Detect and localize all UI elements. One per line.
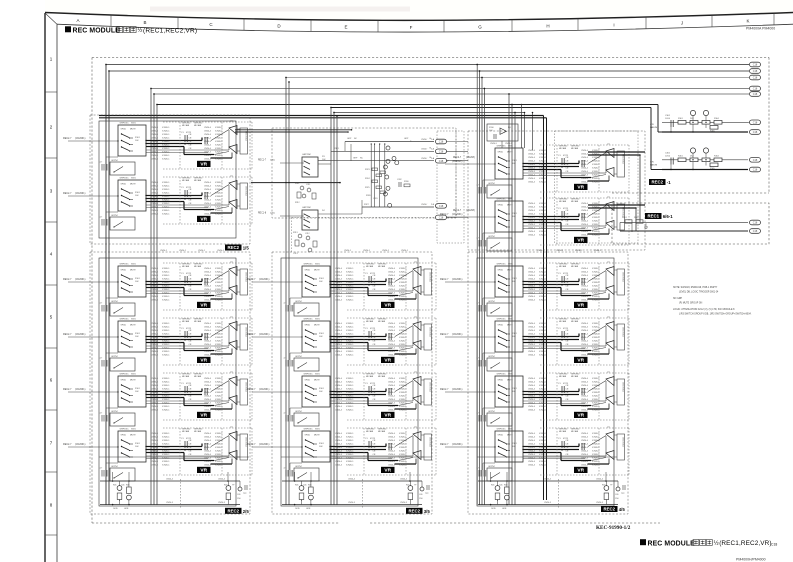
svg-text:C18: C18 bbox=[753, 230, 758, 233]
label REC2 4/5 bbox=[601, 506, 625, 512]
svg-text:REC2: REC2 bbox=[604, 507, 616, 512]
REC channel block left g2 ch3 bbox=[63, 372, 252, 427]
svg-text:(CN20#): (CN20#) bbox=[466, 210, 475, 212]
svg-text:½: ½ bbox=[714, 540, 719, 547]
wire REC1 out 1 bbox=[620, 222, 748, 224]
REC channel block right g2 ch1 bbox=[440, 262, 629, 317]
bottom bus left bbox=[99, 456, 249, 458]
resistor R401 bbox=[625, 220, 632, 223]
dashed box REC1 6/6 bbox=[612, 203, 769, 244]
svg-text:4/5: 4/5 bbox=[619, 507, 626, 512]
bus wire V1 bbox=[105, 65, 107, 506]
svg-text:NOTE: SW1018, RSW1019, PCB-1 P: NOTE: SW1018, RSW1019, PCB-1 PARTY bbox=[673, 286, 718, 289]
REC channel block mid g2 ch1 bbox=[247, 262, 436, 317]
REC2 group1 left solid box bbox=[99, 121, 236, 238]
svg-text:CN20-1: CN20-1 bbox=[382, 250, 390, 252]
terminal B1 bbox=[750, 158, 761, 163]
svg-text:R313: R313 bbox=[293, 232, 298, 234]
REC channel block right g1 ch2 bbox=[440, 197, 629, 252]
svg-text:(REC1,REC2,VR): (REC1,REC2,VR) bbox=[719, 540, 771, 547]
label REC1 6/6-1 bbox=[645, 213, 673, 219]
REC channel block left g2 ch1 bbox=[63, 262, 252, 317]
svg-text:CN20-1: CN20-1 bbox=[344, 250, 352, 252]
svg-text:(REC1,REC2,VR): (REC1,REC2,VR) bbox=[143, 27, 197, 34]
cluster under S32 bbox=[298, 234, 302, 238]
bus wire H4 bbox=[151, 88, 749, 90]
connector dashed box bbox=[455, 130, 457, 217]
terminal A1 bbox=[750, 120, 761, 125]
terminal T1 bbox=[750, 62, 761, 67]
bus wire V10 bbox=[336, 116, 338, 505]
module boundary dashed top bbox=[92, 57, 769, 59]
svg-text:KEC-91990-1/2: KEC-91990-1/2 bbox=[596, 525, 631, 531]
label REC2 2/5 bbox=[225, 508, 249, 514]
bus wire V13 bbox=[481, 78, 483, 506]
border frame band left bbox=[56, 24, 58, 562]
svg-text:GRP: GRP bbox=[404, 138, 409, 140]
svg-text:C332: C332 bbox=[397, 179, 402, 181]
svg-text:C18: C18 bbox=[753, 70, 758, 73]
label REC2 1/5 bbox=[225, 245, 249, 251]
svg-text:GRP: GRP bbox=[353, 157, 358, 159]
svg-text:REC2-7: REC2-7 bbox=[453, 157, 462, 159]
REC channel block mid g2 ch4 bbox=[247, 427, 436, 482]
svg-text:CN20-1: CN20-1 bbox=[575, 250, 583, 252]
svg-text:REC1-7: REC1-7 bbox=[258, 160, 267, 162]
svg-text:CN20-1: CN20-1 bbox=[594, 250, 602, 252]
bus wire V16 bbox=[511, 105, 513, 506]
bus wire V17 bbox=[514, 113, 516, 506]
bus wire H2 bbox=[109, 70, 749, 72]
svg-text:REC2: REC2 bbox=[652, 180, 664, 185]
bus wire V8 bbox=[330, 108, 332, 506]
svg-text:C311: C311 bbox=[306, 184, 310, 186]
bus wire V14 bbox=[483, 89, 485, 506]
ground mark bbox=[645, 223, 647, 227]
wire drop J1 bbox=[521, 105, 523, 149]
REC channel block left g1 ch1 bbox=[63, 121, 252, 176]
bus wire V2 bbox=[108, 71, 110, 505]
svg-text:C18: C18 bbox=[753, 169, 758, 172]
mid-top switch S32 bbox=[302, 210, 318, 230]
module boundary dashed left bbox=[91, 58, 93, 524]
bus wire V11 bbox=[476, 65, 478, 506]
svg-text:I: I bbox=[613, 22, 614, 27]
svg-text:C18: C18 bbox=[753, 222, 758, 225]
svg-text:R312: R312 bbox=[295, 202, 300, 204]
ladder resistors bbox=[372, 168, 378, 171]
svg-text:R311: R311 bbox=[295, 183, 299, 185]
aux circuit U30 box bbox=[487, 124, 518, 141]
svg-text:(CN): (CN) bbox=[270, 160, 275, 162]
svg-text:CN20#: CN20# bbox=[421, 158, 428, 160]
terminal T3 bbox=[750, 75, 761, 80]
terminal T2 bbox=[750, 69, 761, 74]
REC2 group2 mid dashed box bbox=[272, 252, 432, 514]
terminal C2 bbox=[750, 229, 761, 234]
REC channel block right g2 ch2 bbox=[440, 317, 629, 372]
REC2 group2 left dashed box bbox=[90, 252, 250, 514]
ladder transistors bbox=[386, 146, 390, 150]
REC2 group1 right inner dashed bbox=[555, 131, 639, 243]
REC2 group2 left solid box bbox=[99, 258, 236, 506]
svg-text:REC MODULE: REC MODULE bbox=[648, 540, 696, 547]
svg-text:(CN20#): (CN20#) bbox=[466, 157, 475, 159]
terminal CN21-2 bbox=[436, 149, 447, 154]
bus wire V3 bbox=[150, 89, 152, 506]
thick wire g1ch2 out bbox=[588, 204, 645, 206]
interconnect wire bbox=[251, 182, 340, 184]
bus wire V5 bbox=[156, 105, 158, 506]
svg-text:PM4000A PM4000: PM4000A PM4000 bbox=[746, 27, 775, 31]
REC channel block mid g2 ch2 bbox=[247, 317, 436, 372]
svg-text:CN20#: CN20# bbox=[421, 139, 428, 141]
resistor network A bbox=[650, 110, 748, 132]
REC2 group1 left dashed box bbox=[90, 115, 250, 244]
capacitor C332 bbox=[398, 182, 400, 187]
dashed box REC2-1 bottom bbox=[612, 192, 769, 194]
mid-top switch S31 bbox=[302, 157, 318, 177]
svg-text:C331: C331 bbox=[373, 198, 378, 200]
REC channel block left g2 ch2 bbox=[63, 317, 252, 372]
bus wire H1 bbox=[106, 64, 749, 66]
svg-text:-1: -1 bbox=[667, 180, 671, 185]
svg-text:B: B bbox=[143, 20, 146, 25]
svg-text:REC2: REC2 bbox=[228, 245, 240, 250]
svg-text:A: A bbox=[76, 18, 79, 23]
REC channel block left g1 ch2 bbox=[63, 176, 252, 231]
svg-text:R326: R326 bbox=[366, 195, 371, 197]
border frame outer top line bbox=[45, 13, 793, 21]
svg-text:(CN): (CN) bbox=[270, 213, 275, 215]
svg-text:C18: C18 bbox=[753, 64, 758, 67]
bus wire H6 bbox=[157, 104, 658, 106]
terminal A2 bbox=[750, 130, 761, 135]
title bottom-right bbox=[640, 539, 646, 545]
REC channel block mid g2 ch3 bbox=[247, 372, 436, 427]
svg-text:C18: C18 bbox=[439, 217, 444, 220]
svg-text:R325: R325 bbox=[365, 187, 370, 189]
svg-text:K: K bbox=[746, 18, 749, 23]
svg-text:C18: C18 bbox=[753, 93, 758, 96]
svg-text:C18: C18 bbox=[439, 150, 444, 153]
bus wire H5 bbox=[154, 93, 749, 95]
svg-text:½: ½ bbox=[137, 27, 142, 34]
bottom bus right bbox=[477, 456, 614, 458]
border frame outer left line bbox=[44, 13, 46, 562]
input stub mid-top 1 bbox=[280, 162, 304, 164]
wire into block bbox=[501, 141, 503, 148]
wire drop J2 bbox=[532, 113, 534, 151]
bus wire V6 bbox=[285, 78, 287, 506]
cluster under S31 bbox=[300, 186, 304, 190]
svg-text:C18: C18 bbox=[753, 77, 758, 80]
svg-text:2/5: 2/5 bbox=[243, 509, 250, 514]
svg-text:REC1-8: REC1-8 bbox=[258, 213, 267, 215]
svg-text:6/6-1: 6/6-1 bbox=[663, 214, 673, 219]
bus wire V4 bbox=[153, 94, 155, 505]
svg-text:(P) MUTE GROUP ON: (P) MUTE GROUP ON bbox=[679, 303, 703, 305]
outer dashed bottom mid bbox=[370, 522, 660, 524]
svg-text:R323: R323 bbox=[365, 169, 370, 171]
svg-text:C18: C18 bbox=[439, 141, 444, 144]
svg-text:REC1: REC1 bbox=[648, 214, 660, 219]
border frame band bottom bbox=[57, 24, 793, 32]
svg-text:C18: C18 bbox=[439, 160, 444, 163]
resistor R402 bbox=[636, 220, 643, 223]
output stage left bbox=[100, 472, 247, 510]
mid-top section dashed box bbox=[272, 128, 456, 218]
thick wire g1ch1 out bbox=[588, 151, 645, 153]
svg-text:G: G bbox=[478, 25, 482, 30]
REC channel block right g2 ch3 bbox=[440, 372, 629, 427]
svg-text:C18: C18 bbox=[771, 542, 777, 546]
svg-text:LEVEL DB, LOGIC TRIGGER 0001 0: LEVEL DB, LOGIC TRIGGER 0001 04 bbox=[679, 292, 719, 294]
svg-text:REC2: REC2 bbox=[409, 509, 421, 514]
connector terminals mid-top bbox=[436, 204, 447, 209]
svg-text:C18: C18 bbox=[753, 88, 758, 91]
terminal B2 bbox=[750, 167, 761, 172]
resistor R330 bbox=[404, 184, 410, 187]
capacitor C310 bbox=[493, 134, 495, 139]
bus wire H8 bbox=[334, 112, 525, 114]
module boundary dashed right segment bbox=[768, 58, 770, 194]
output stage right bbox=[478, 472, 625, 510]
svg-text:CN20#: CN20# bbox=[421, 149, 428, 151]
frame corner diagonal bbox=[45, 13, 57, 24]
bus wire V7 bbox=[288, 82, 290, 505]
module boundary dashed bottom-left bbox=[92, 522, 340, 524]
svg-text:CN20-1: CN20-1 bbox=[537, 250, 545, 252]
svg-text:CN20-2: CN20-2 bbox=[505, 143, 513, 145]
resistor network B bbox=[650, 148, 748, 170]
mix summing wires bbox=[345, 141, 434, 143]
bottom bus mid bbox=[281, 456, 431, 458]
svg-text:REC MODULE: REC MODULE bbox=[73, 27, 121, 34]
svg-text:CN20-1: CN20-1 bbox=[217, 250, 225, 252]
terminal T5 bbox=[750, 92, 761, 97]
terminal CN21-3 bbox=[436, 158, 447, 163]
output stage mid bbox=[282, 472, 429, 510]
bus wire H3 bbox=[286, 77, 749, 79]
terminal CN21-4 bbox=[436, 215, 447, 220]
svg-text:R330: R330 bbox=[404, 181, 409, 183]
interconnect pair g1 bbox=[235, 129, 352, 131]
svg-text:CN20-1: CN20-1 bbox=[556, 250, 564, 252]
svg-text:NO GRP: NO GRP bbox=[673, 298, 683, 300]
svg-text:C18: C18 bbox=[753, 131, 758, 134]
svg-text:REC2: REC2 bbox=[228, 509, 240, 514]
svg-text:R324: R324 bbox=[365, 178, 370, 180]
label REC2 3/5 bbox=[406, 508, 430, 514]
svg-text:GRP2NC: GRP2NC bbox=[302, 207, 312, 209]
input stub mid-top 2 bbox=[280, 215, 304, 217]
svg-text:CN20-1: CN20-1 bbox=[160, 250, 168, 252]
terminal CN21-1 bbox=[436, 139, 447, 144]
REC channel block right g2 ch4 bbox=[440, 427, 629, 482]
svg-text:CN20-1: CN20-1 bbox=[198, 250, 206, 252]
terminal C1 bbox=[750, 220, 761, 225]
svg-text:CN20-1: CN20-1 bbox=[363, 250, 371, 252]
mix bus rails bbox=[370, 144, 372, 207]
svg-text:LOGIC: ATTENUATION 024-2 (V),: LOGIC: ATTENUATION 024-2 (V), (V) LTD, S… bbox=[673, 308, 735, 311]
svg-text:C18: C18 bbox=[753, 121, 758, 124]
svg-text:1/5: 1/5 bbox=[243, 246, 250, 251]
svg-text:CN20-1: CN20-1 bbox=[179, 250, 187, 252]
label REC2 -1 bbox=[649, 179, 671, 185]
svg-text:GRP: GRP bbox=[347, 138, 352, 140]
column ruler dividers bbox=[110, 15, 112, 27]
svg-text:C312: C312 bbox=[305, 233, 310, 235]
REC channel block left g2 ch4 bbox=[63, 427, 252, 482]
svg-text:3/5: 3/5 bbox=[424, 509, 431, 514]
REC channel block right g1 ch1 bbox=[440, 144, 629, 199]
svg-text:C18: C18 bbox=[439, 205, 444, 208]
row ruler dividers bbox=[45, 91, 57, 93]
terminal T4 bbox=[750, 86, 761, 91]
svg-text:H: H bbox=[546, 24, 549, 29]
REC2 group1 right dashed box bbox=[468, 131, 645, 250]
REC2 group2 right dashed box bbox=[468, 252, 628, 514]
svg-text:CN20-1: CN20-1 bbox=[401, 250, 409, 252]
svg-text:CN20-5: CN20-5 bbox=[490, 143, 498, 145]
svg-text:C313: C313 bbox=[293, 253, 298, 255]
bus wire V12 bbox=[479, 71, 481, 505]
bus wire H9 thick pair bbox=[99, 115, 544, 117]
bus wire V15 bbox=[508, 94, 510, 505]
REC2 group2 right solid box bbox=[477, 258, 614, 506]
bus wire H7 bbox=[331, 107, 651, 109]
svg-text:REC2-7: REC2-7 bbox=[453, 210, 462, 212]
REC2 group2 mid solid box bbox=[281, 258, 418, 506]
scan artifact top edge bbox=[45, 0, 793, 20]
svg-text:E: E bbox=[344, 24, 347, 29]
wire REC1 out 2 bbox=[620, 230, 748, 232]
svg-text:J: J bbox=[681, 20, 683, 25]
bus wire V9 bbox=[333, 113, 335, 506]
connector dashed box bbox=[437, 131, 464, 243]
svg-text:GRP2NC: GRP2NC bbox=[302, 154, 312, 156]
svg-text:L/R3 SWITCH GROUP 8 DB, 1/R3 S: L/R3 SWITCH GROUP 8 DB, 1/R3 SWITCH+GROU… bbox=[679, 314, 752, 316]
svg-text:PM4000H/PM4000: PM4000H/PM4000 bbox=[736, 557, 766, 561]
svg-text:F: F bbox=[410, 25, 413, 30]
svg-text:CN20#: CN20# bbox=[421, 204, 428, 206]
svg-text:C18: C18 bbox=[753, 159, 758, 162]
op-amp U30 bbox=[500, 128, 507, 134]
title top-left bbox=[65, 26, 71, 32]
